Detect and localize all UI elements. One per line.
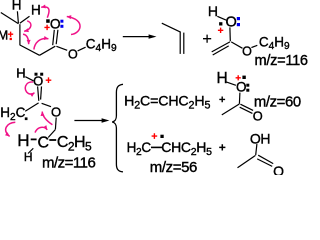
bond O-C xyxy=(238,93,241,104)
svg-text:H: H xyxy=(24,150,33,164)
curved arrow D: down chain xyxy=(23,34,29,44)
svg-text:m/z=56: m/z=56 xyxy=(150,159,197,175)
svg-text:O: O xyxy=(33,73,43,88)
svg-text:H: H xyxy=(31,3,41,18)
svg-text:M: M xyxy=(0,29,8,43)
bond C3-H2 xyxy=(20,16,30,23)
propene CH3-CH bond xyxy=(162,23,181,32)
curved arrow A: H migration to O xyxy=(41,7,49,18)
svg-text:m/z=116: m/z=116 xyxy=(42,154,95,171)
bond esterO-C4H9 xyxy=(251,45,257,47)
svg-text:O: O xyxy=(51,105,61,120)
curved arrow c: over C xyxy=(35,127,47,132)
plus sign xyxy=(219,144,225,150)
blue lone pair on carbonyl O xyxy=(60,20,63,23)
dash H-C xyxy=(31,138,37,140)
svg-text:H: H xyxy=(16,66,25,81)
C=CH2 double bond xyxy=(212,42,230,52)
radical dot xyxy=(242,76,245,79)
C=O double bond line a xyxy=(53,30,55,45)
bond esterO-CH2 xyxy=(54,118,57,130)
svg-text:O: O xyxy=(236,79,247,94)
plus sign xyxy=(219,97,225,103)
bond H-O xyxy=(217,16,226,20)
svg-text:O: O xyxy=(68,47,78,61)
bond C2-C1 xyxy=(20,45,40,55)
bond C-H lower xyxy=(28,148,33,153)
long bond xyxy=(151,146,163,148)
red plus charge xyxy=(218,28,223,33)
radical dot on CH2 xyxy=(25,117,28,120)
curly brace xyxy=(112,84,123,172)
red plus on bond xyxy=(152,133,158,139)
bond C-esterO xyxy=(42,103,51,106)
bond H2C-C xyxy=(25,103,38,111)
C=O double bond xyxy=(258,155,273,163)
lone pair dots above O xyxy=(35,73,38,76)
svg-text:H: H xyxy=(17,131,29,150)
svg-text:m/z=60: m/z=60 xyxy=(254,95,301,111)
svg-text:O: O xyxy=(50,17,61,32)
C=O double bond line b xyxy=(56,30,58,44)
curved arrow C: to C3-C2 bond xyxy=(24,21,31,32)
svg-text:O: O xyxy=(253,109,263,124)
curved arrow b: to C-O bond xyxy=(42,112,52,125)
red plus xyxy=(236,75,241,80)
plus charge on carbonyl O xyxy=(44,25,49,30)
svg-text:H: H xyxy=(217,70,228,87)
svg-text:O: O xyxy=(226,14,237,30)
radical dot xyxy=(160,135,163,138)
bond H-O xyxy=(25,77,33,81)
dash C-C2H5 xyxy=(49,139,56,141)
bond C-esterO xyxy=(231,42,242,48)
blue lone pair xyxy=(237,17,240,20)
bond H-O xyxy=(226,82,236,85)
svg-text:O: O xyxy=(273,163,284,175)
bond H1-C3 xyxy=(17,11,18,23)
curved arrow B: pi bond to O xyxy=(67,17,80,35)
bond C1-carbonylC xyxy=(40,46,56,55)
bond C-CH3 xyxy=(222,104,240,115)
curved arrow E: alpha bond to carbonyl xyxy=(34,38,49,49)
curved arrow a: curl at O xyxy=(25,82,34,94)
svg-text:H: H xyxy=(208,3,218,19)
red plus charge xyxy=(46,77,52,83)
bond esterO-C4H9 xyxy=(78,47,86,51)
radical dot xyxy=(219,22,222,25)
reaction arrow 1 xyxy=(123,36,150,38)
bond O-C xyxy=(256,144,257,155)
svg-text:H: H xyxy=(12,0,22,12)
lone pair colon xyxy=(246,84,249,87)
bond CH2-C xyxy=(48,130,55,138)
bond O-C xyxy=(229,27,231,41)
svg-text:OH: OH xyxy=(250,131,270,147)
bond carbonylC-esterO xyxy=(56,46,67,50)
propene C=C double bond xyxy=(179,32,181,54)
bond CH3 methyl xyxy=(1,13,19,24)
plus sign between products xyxy=(203,35,211,43)
curved arrow d: H transfer xyxy=(6,122,16,136)
C=O double bond xyxy=(240,104,253,110)
svg-text:m/z=116: m/z=116 xyxy=(255,53,308,69)
C=O double bond xyxy=(38,86,39,100)
svg-text:C: C xyxy=(38,134,50,151)
reaction arrow 2 xyxy=(74,120,102,122)
radical dot on carbonyl O xyxy=(46,19,50,23)
bond C3-C2 xyxy=(19,24,21,45)
bond C-CH3 xyxy=(238,155,256,167)
svg-text:O: O xyxy=(242,44,252,58)
